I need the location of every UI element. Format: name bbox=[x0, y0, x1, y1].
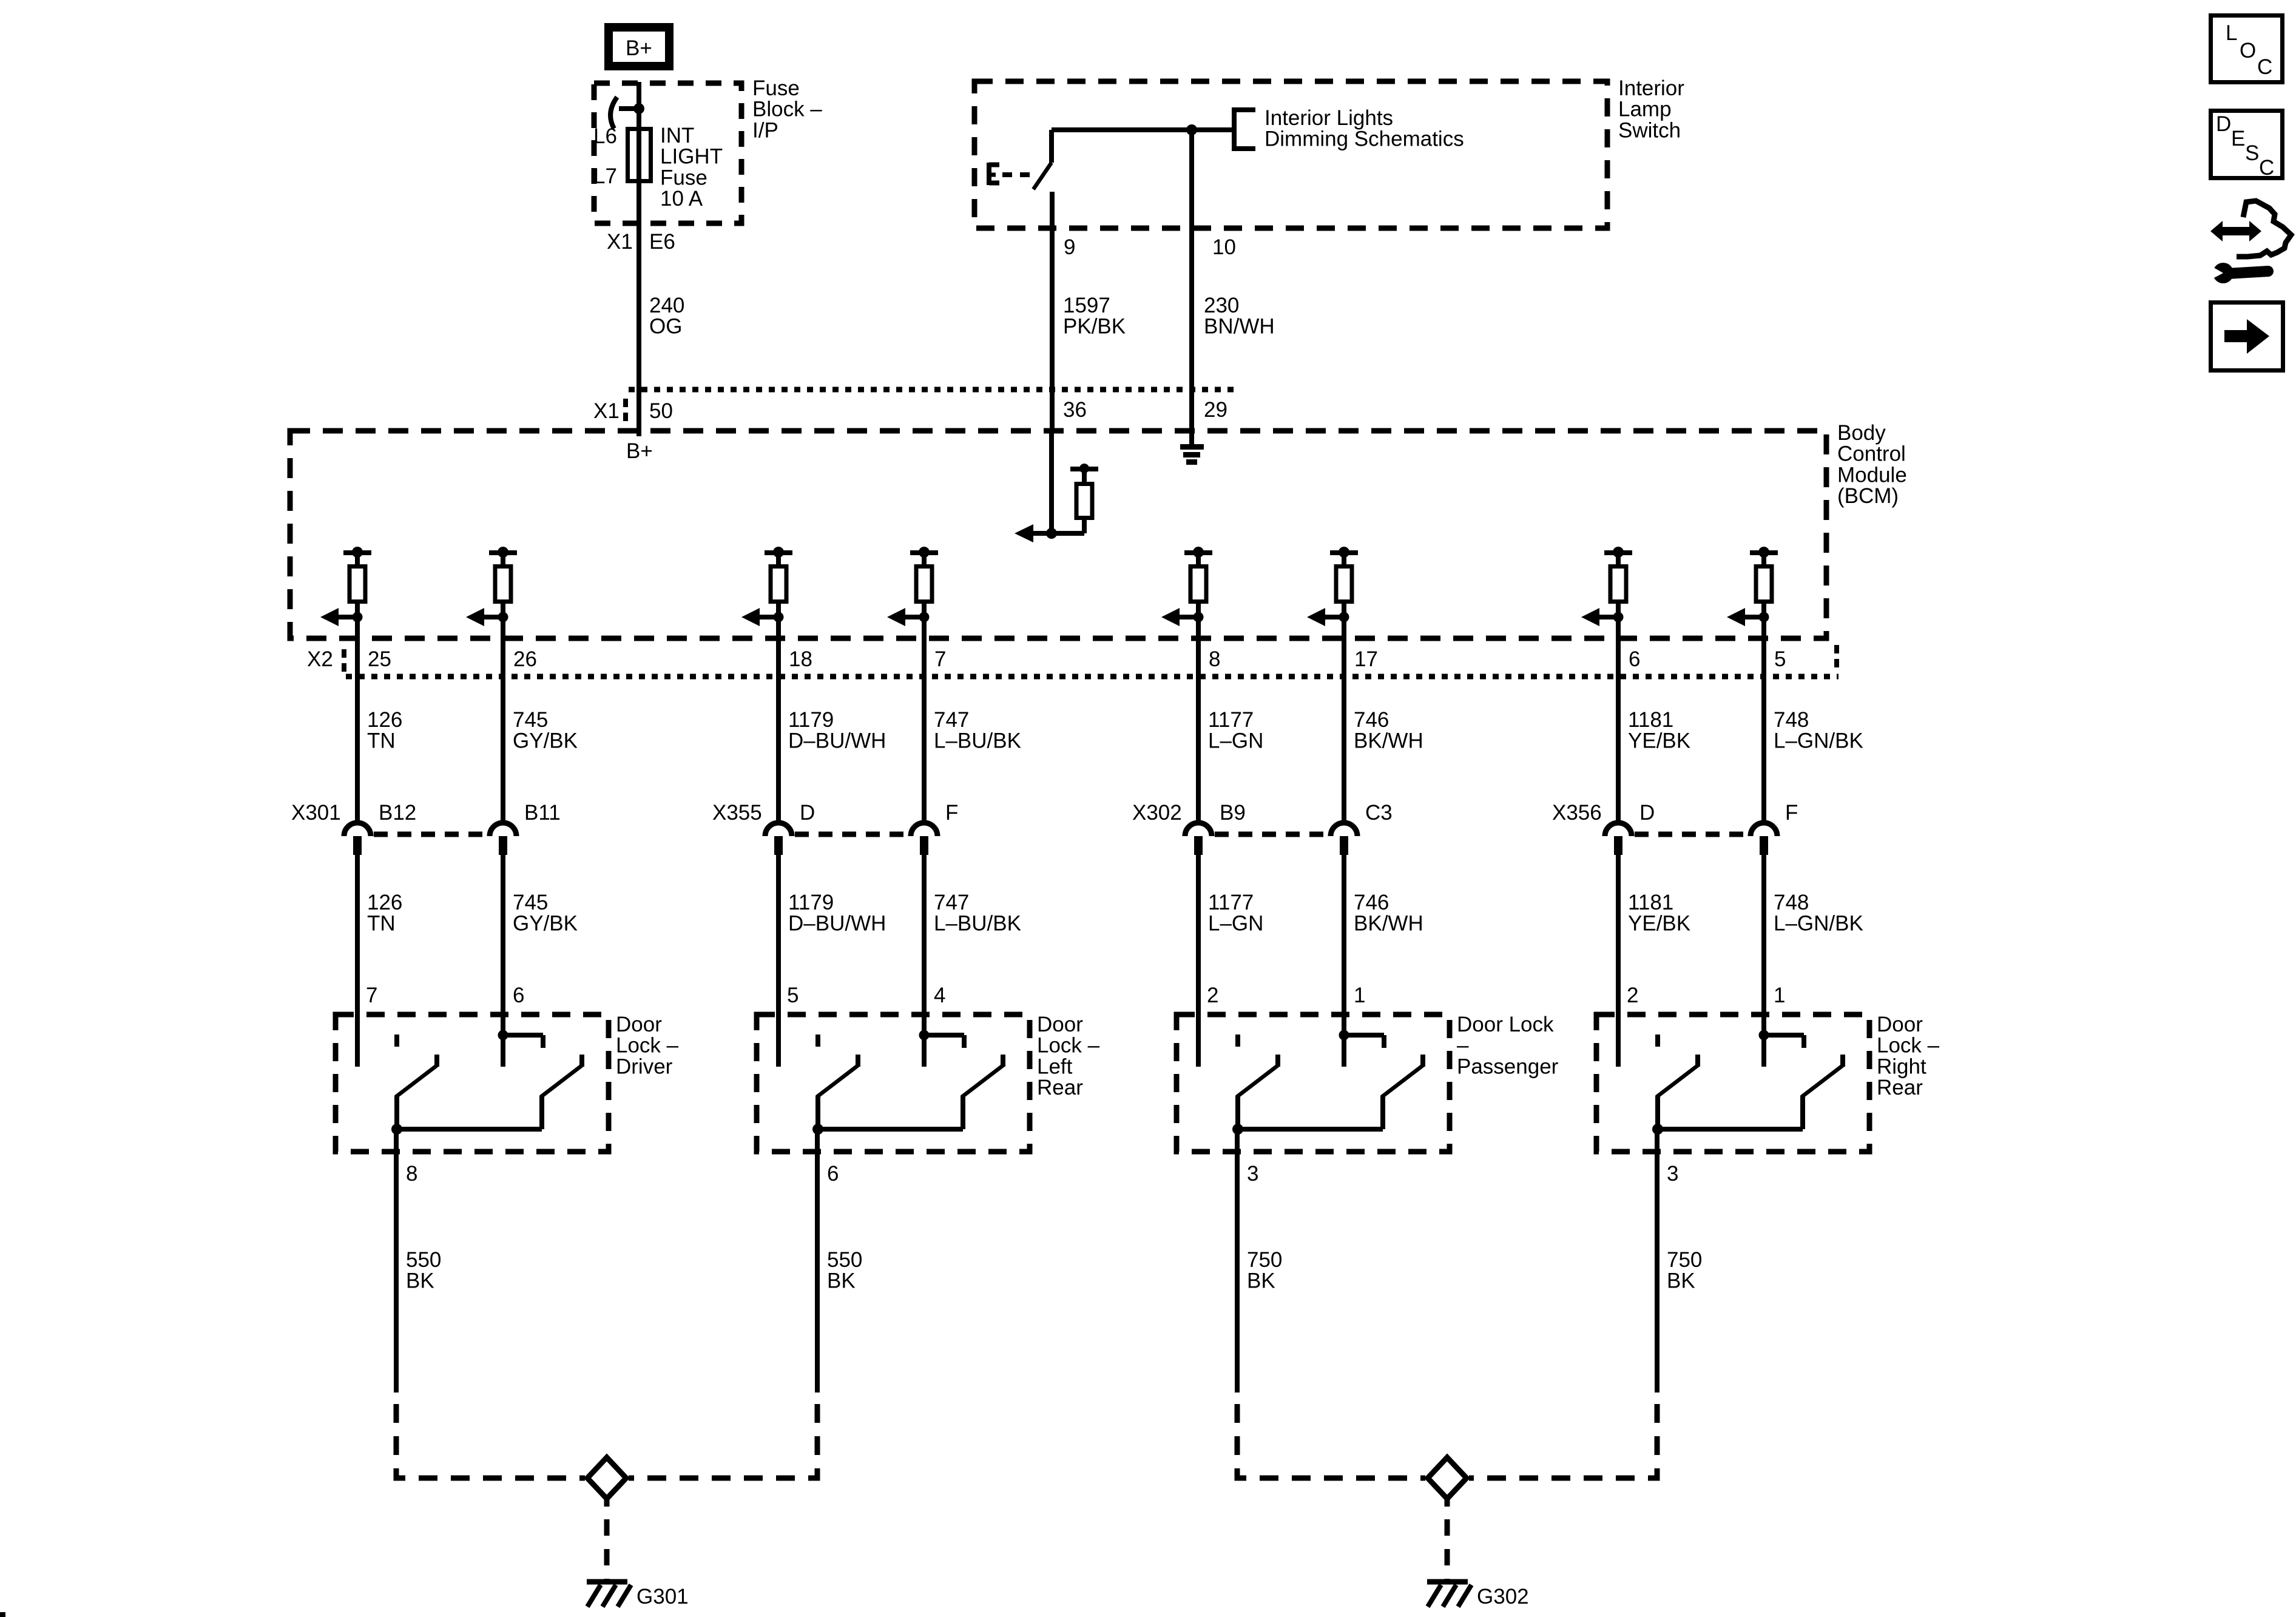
fuse block I/P dashed box bbox=[594, 83, 741, 223]
svg-text:2: 2 bbox=[1207, 984, 1218, 1007]
wire 745 GY/BK BCM to connector bbox=[501, 604, 505, 820]
resistor R4 BCM output driver bbox=[887, 547, 938, 626]
svg-text:D: D bbox=[2216, 112, 2231, 136]
svg-text:8: 8 bbox=[1209, 647, 1220, 671]
connector X302 dashed line bbox=[1215, 832, 1328, 837]
wire 550 BK door lock to splice bbox=[815, 1129, 820, 1393]
interior lamp switch dashed box bbox=[974, 81, 1607, 228]
switch door lock Rear bbox=[1596, 1014, 1869, 1152]
connector X1 separator bbox=[623, 399, 628, 424]
svg-text:G302: G302 bbox=[1477, 1585, 1529, 1609]
resistor R1 BCM output driver bbox=[320, 547, 371, 626]
svg-text:L7: L7 bbox=[593, 164, 617, 188]
svg-text:2: 2 bbox=[1627, 984, 1638, 1007]
wire 750 BK door lock to splice bbox=[1235, 1129, 1240, 1393]
wire switch common to pin 9 bbox=[1050, 192, 1055, 431]
svg-text:X1: X1 bbox=[607, 230, 633, 254]
svg-text:4: 4 bbox=[934, 984, 945, 1007]
svg-text:3: 3 bbox=[1247, 1162, 1258, 1186]
connector X356 dashed line bbox=[1635, 832, 1747, 837]
fuse clip terminal bbox=[610, 97, 644, 129]
wire B+ feed into fuse block bbox=[636, 82, 641, 147]
terminal X355-F bbox=[911, 801, 958, 855]
resistor R2 BCM output driver bbox=[466, 547, 517, 626]
svg-text:X356: X356 bbox=[1552, 801, 1602, 825]
wire 1179 D–BU/WH BCM to connector bbox=[776, 604, 781, 820]
ground internal BCM pin29 bbox=[1180, 431, 1204, 462]
resistor R7 BCM output driver bbox=[1581, 547, 1632, 626]
wire 746 BK/WH connector to door lock bbox=[1342, 855, 1346, 1067]
wire 746 BK/WH BCM to connector bbox=[1342, 604, 1346, 820]
resistor R5 BCM output driver bbox=[1161, 547, 1212, 626]
wire 1181 YE/BK connector to door lock bbox=[1616, 855, 1621, 1067]
svg-text:L: L bbox=[2226, 21, 2237, 45]
label fuse terminals L6 L7 bbox=[593, 124, 617, 188]
svg-text:X355: X355 bbox=[712, 801, 762, 825]
svg-text:7: 7 bbox=[934, 647, 946, 671]
connector X2 inline dotted line bbox=[346, 674, 1838, 680]
wire 1597 input inside BCM bbox=[1015, 431, 1084, 542]
scan artifact mark bottom-left bbox=[0, 1612, 5, 1617]
wire 750 BK door lock to splice bbox=[1655, 1129, 1660, 1393]
svg-text:X1: X1 bbox=[593, 399, 620, 423]
svg-text:C3: C3 bbox=[1365, 801, 1393, 825]
switch door lock Rear bbox=[757, 1014, 1030, 1152]
svg-text:3: 3 bbox=[1667, 1162, 1678, 1186]
wire switch feed horizontal bbox=[1052, 127, 1234, 132]
svg-text:5: 5 bbox=[787, 984, 799, 1007]
splice S302 bbox=[1428, 1457, 1467, 1499]
wire 230 BN/WH pin10 down bbox=[1189, 130, 1194, 431]
terminal X356-F bbox=[1751, 801, 1798, 855]
connector X301 dashed line bbox=[374, 832, 487, 837]
svg-text:F: F bbox=[945, 801, 958, 825]
pin X1 E6 labels bbox=[607, 230, 675, 254]
svg-text:10: 10 bbox=[1212, 235, 1236, 259]
fuse F1 INT LIGHT 10A bbox=[628, 129, 651, 181]
svg-text:5: 5 bbox=[1774, 647, 1786, 671]
svg-text:29: 29 bbox=[1204, 398, 1227, 422]
wire dashed ground path left G302 bbox=[1237, 1404, 1425, 1478]
svg-text:X302: X302 bbox=[1132, 801, 1182, 825]
wire 747 L–BU/BK connector to door lock bbox=[922, 855, 927, 1067]
wire dashed splice to ground G302 bbox=[1445, 1499, 1450, 1582]
svg-text:1: 1 bbox=[1774, 984, 1785, 1007]
svg-text:E: E bbox=[2231, 127, 2245, 150]
svg-text:X2: X2 bbox=[307, 647, 333, 671]
wire 745 GY/BK connector to door lock bbox=[501, 855, 505, 1067]
switch door lock Passenger bbox=[1177, 1014, 1450, 1152]
svg-text:B+: B+ bbox=[626, 439, 653, 463]
svg-text:G301: G301 bbox=[636, 1585, 689, 1609]
resistor R3 BCM output driver bbox=[741, 547, 792, 626]
resistor R6 BCM output driver bbox=[1307, 547, 1358, 626]
svg-text:8: 8 bbox=[406, 1162, 417, 1186]
terminal X302-B9 bbox=[1185, 801, 1246, 855]
svg-text:B12: B12 bbox=[379, 801, 416, 825]
svg-text:F: F bbox=[1785, 801, 1798, 825]
terminal X355-D bbox=[765, 801, 815, 855]
icon DESC box bbox=[2211, 111, 2283, 180]
svg-text:6: 6 bbox=[513, 984, 524, 1007]
terminal X301-B12 bbox=[344, 801, 416, 855]
svg-text:C: C bbox=[2257, 55, 2272, 79]
svg-text:240OG: 240OG bbox=[649, 294, 684, 339]
terminal X302-C3 bbox=[1331, 801, 1393, 855]
icon forward arrow box bbox=[2211, 303, 2283, 371]
wire 748 L–GN/BK BCM to connector bbox=[1761, 604, 1766, 820]
pin 50 labels X1 50 bbox=[593, 399, 673, 423]
svg-text:B11: B11 bbox=[524, 801, 561, 825]
svg-text:18: 18 bbox=[789, 647, 812, 671]
ground G302 bbox=[1427, 1582, 1471, 1607]
reference bracket interior lights dimming bbox=[1234, 110, 1255, 149]
terminal X356-D bbox=[1605, 801, 1655, 855]
wire 1177 L–GN connector to door lock bbox=[1196, 855, 1201, 1067]
wire 748 L–GN/BK connector to door lock bbox=[1761, 855, 1766, 1067]
svg-text:6: 6 bbox=[827, 1162, 839, 1186]
connector X2 separator right bbox=[1834, 645, 1839, 670]
svg-text:6: 6 bbox=[1629, 647, 1640, 671]
svg-text:9: 9 bbox=[1064, 235, 1075, 259]
connector X2 separator bbox=[342, 649, 346, 675]
svg-text:B+: B+ bbox=[626, 36, 652, 60]
wire fuse output 240 OG bbox=[636, 147, 641, 436]
wire 550 BK door lock to splice bbox=[394, 1129, 399, 1393]
switch S1 blade bbox=[1033, 130, 1052, 189]
svg-text:C: C bbox=[2259, 156, 2274, 180]
svg-text:1: 1 bbox=[1354, 984, 1365, 1007]
wire 1181 YE/BK BCM to connector bbox=[1616, 604, 1621, 820]
svg-text:E6: E6 bbox=[649, 230, 675, 254]
switch door lock Driver bbox=[336, 1014, 609, 1152]
wire 126 TN connector to door lock bbox=[355, 855, 360, 1067]
svg-text:O: O bbox=[2240, 39, 2256, 62]
svg-text:L6: L6 bbox=[593, 124, 617, 148]
wire 126 TN BCM to connector bbox=[355, 604, 360, 820]
svg-text:B9: B9 bbox=[1220, 801, 1246, 825]
icon LOC box bbox=[2211, 16, 2283, 83]
BCM body control module dashed box bbox=[290, 431, 1826, 638]
terminal X301-B11 bbox=[490, 801, 561, 855]
wire dashed ground path right G301 bbox=[629, 1404, 817, 1478]
wire 1177 L–GN BCM to connector bbox=[1196, 604, 1201, 820]
svg-text:D: D bbox=[800, 801, 815, 825]
wire dashed ground path left G301 bbox=[396, 1404, 585, 1478]
connector X1 inline dotted line bbox=[629, 387, 1235, 393]
svg-text:X301: X301 bbox=[291, 801, 341, 825]
icon vehicle data with wrench bbox=[2207, 201, 2291, 283]
wire dashed ground path right G302 bbox=[1469, 1404, 1657, 1478]
wire 1179 D–BU/WH connector to door lock bbox=[776, 855, 781, 1067]
svg-text:D: D bbox=[1639, 801, 1655, 825]
svg-text:S: S bbox=[2245, 141, 2259, 165]
wire dashed splice to ground G301 bbox=[604, 1499, 610, 1582]
resistor R8 BCM output driver bbox=[1727, 547, 1778, 626]
svg-text:17: 17 bbox=[1354, 647, 1378, 671]
splice S301 bbox=[587, 1457, 626, 1499]
svg-text:36: 36 bbox=[1063, 398, 1087, 422]
ground G301 bbox=[587, 1582, 631, 1607]
switch S1 actuator E bracket bbox=[989, 163, 1032, 185]
resistor R9 dimmer input bbox=[1070, 464, 1098, 533]
node B+ battery terminal box bbox=[609, 27, 669, 66]
svg-text:50: 50 bbox=[649, 399, 673, 423]
svg-text:7: 7 bbox=[366, 984, 377, 1007]
node junction pin10 feed bbox=[1186, 124, 1197, 135]
svg-text:25: 25 bbox=[368, 647, 391, 671]
connector X355 dashed line bbox=[795, 832, 908, 837]
wire 747 L–BU/BK BCM to connector bbox=[922, 604, 927, 820]
svg-text:26: 26 bbox=[513, 647, 537, 671]
